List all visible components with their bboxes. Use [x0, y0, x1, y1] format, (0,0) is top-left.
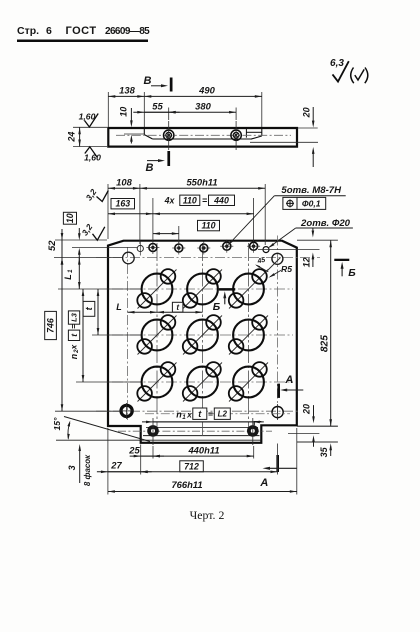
dimension 490	[144, 85, 261, 98]
svg-text:45: 45	[256, 257, 266, 266]
note 3 chamfers leader	[67, 444, 92, 486]
section mark B bottom	[146, 151, 171, 174]
dimension 25	[128, 444, 164, 457]
side view bolt 2	[231, 121, 241, 150]
svg-text:8 фасок: 8 фасок	[83, 454, 92, 486]
side view recess left step	[144, 128, 250, 139]
svg-text:440h11: 440h11	[187, 444, 219, 455]
note 2 holes Ф20 with leader	[268, 218, 353, 248]
page header text: Стр. 6 ГОСТ 26609-85	[17, 25, 150, 37]
svg-text:1,60: 1,60	[84, 153, 101, 163]
svg-text:n: n	[69, 354, 79, 359]
right extension lines	[288, 240, 338, 442]
dimension 35 right	[319, 443, 332, 457]
svg-text:35: 35	[319, 446, 329, 457]
svg-text:А: А	[284, 374, 293, 386]
side view recess right step	[246, 128, 261, 139]
svg-text:26609—85: 26609—85	[105, 26, 150, 37]
side view hidden slot line	[250, 141, 318, 143]
svg-text:=: =	[208, 409, 213, 419]
corner holes vertical centerline right	[276, 236, 278, 420]
hole cluster row3 col3	[229, 362, 268, 401]
dimension t vertical framed	[83, 289, 99, 335]
bottom chamfer line 15 deg edge	[56, 439, 261, 441]
radius R5 with leader	[268, 264, 292, 278]
dimension 380	[169, 100, 236, 113]
dimension 10 framed top-left	[63, 212, 80, 259]
dimension 550h11	[140, 177, 265, 190]
svg-text:t: t	[84, 306, 94, 310]
svg-text:t: t	[69, 333, 79, 337]
hole cluster row3 col2	[183, 362, 222, 401]
svg-text:12: 12	[301, 257, 311, 267]
svg-text:А: А	[259, 477, 268, 489]
svg-text:t: t	[176, 303, 179, 312]
svg-text:Ф0,1: Ф0,1	[302, 199, 321, 209]
bottom slot centerline	[118, 430, 272, 432]
dimension L1	[63, 258, 80, 289]
corner hole Ф20 bottom-right	[272, 404, 283, 420]
dimension 440h11	[153, 444, 254, 457]
svg-text:6: 6	[46, 25, 52, 37]
svg-text:3,2: 3,2	[80, 222, 95, 238]
hole cluster row3 col1	[137, 362, 176, 401]
M8 hole 2	[172, 242, 185, 255]
roughness 3,2 lower-left	[80, 222, 105, 240]
roughness 3,2 upper-left	[84, 187, 109, 203]
svg-text:20: 20	[301, 404, 311, 415]
svg-text:108: 108	[116, 177, 132, 188]
dimension 55	[133, 100, 179, 113]
svg-text:490: 490	[198, 85, 215, 96]
dimension 746 framed	[45, 258, 64, 412]
hole cluster row1 col2	[183, 269, 222, 308]
plan view plate outline	[108, 241, 297, 443]
angle dimension 15	[52, 417, 70, 440]
dimension 766h11	[108, 479, 297, 493]
svg-text:25: 25	[128, 444, 140, 455]
svg-text:Черт. 2: Черт. 2	[190, 508, 225, 522]
dimension 12	[301, 228, 314, 267]
position tolerance frame Ф0,1	[283, 197, 326, 209]
svg-text:766h11: 766h11	[171, 479, 202, 490]
cluster row centerlines	[112, 289, 293, 382]
svg-text:R5: R5	[281, 264, 292, 274]
side view bolt 1	[164, 121, 174, 150]
view arrow B right side	[334, 259, 356, 279]
extension lines above plan view	[108, 184, 265, 245]
left extension lines of side view	[73, 127, 107, 146]
slot bolt right	[247, 418, 259, 445]
bottom extension lines	[108, 428, 297, 495]
svg-text:440: 440	[213, 195, 229, 205]
dimension 20 right	[301, 404, 314, 447]
svg-text:746: 746	[46, 318, 56, 333]
svg-text:1: 1	[182, 414, 186, 421]
slot pitch label n1 x t = L2	[142, 408, 290, 423]
svg-text:55: 55	[152, 100, 163, 111]
svg-text:20: 20	[301, 107, 311, 118]
dimension 10 recess depth	[119, 107, 144, 144]
corner holes horizontal centerline top	[96, 257, 320, 259]
svg-text:1,60: 1,60	[79, 111, 96, 121]
svg-text:15°: 15°	[52, 417, 62, 431]
svg-text:10: 10	[119, 107, 129, 117]
dimension n2 x t = L3	[68, 289, 84, 382]
svg-text:L: L	[63, 274, 73, 280]
dimension 27	[97, 460, 152, 474]
svg-text:5отв. М8-7Н: 5отв. М8-7Н	[281, 185, 342, 196]
hole cluster row2 col1	[137, 315, 176, 354]
hole cluster row2 col3	[229, 315, 268, 354]
dimension 138	[108, 85, 144, 98]
svg-text:24: 24	[66, 132, 76, 143]
left extension lines	[54, 240, 141, 411]
section arrow A right side	[277, 374, 303, 398]
M8 hole 4	[220, 240, 233, 253]
svg-text:712: 712	[184, 461, 199, 471]
svg-text:х: х	[70, 344, 79, 350]
svg-text:L: L	[116, 302, 122, 312]
corner hole Ф20 top-right	[272, 253, 283, 264]
M8 hole 5	[247, 240, 260, 253]
roughness 1,60 lower	[84, 147, 101, 163]
chamfer 15 degree line	[64, 417, 150, 442]
svg-text:Б: Б	[348, 267, 356, 279]
hole cluster row1 col1	[137, 269, 176, 308]
hole plain top row	[137, 242, 143, 256]
dimension t horizontal framed	[157, 302, 203, 313]
svg-text:Б: Б	[213, 301, 221, 313]
caption Черт. 2	[190, 508, 225, 522]
svg-text:L2: L2	[218, 409, 228, 418]
side view plate outline	[108, 128, 297, 147]
small hole near right corner	[258, 247, 320, 253]
surface roughness note 6,3 with check marks	[330, 58, 368, 83]
view arrow B inside plan	[213, 288, 235, 313]
svg-text:L3: L3	[70, 312, 79, 322]
chamfer angle 45 label	[255, 257, 268, 272]
svg-text:х: х	[186, 409, 192, 419]
svg-text:3: 3	[67, 465, 77, 470]
svg-text:825: 825	[320, 335, 331, 352]
roughness 1,60 upper	[79, 111, 99, 127]
dimension 110 framed	[153, 220, 220, 235]
svg-text:110: 110	[183, 195, 197, 205]
M8 hole 1	[146, 241, 159, 254]
slot bolt left	[147, 418, 159, 445]
dimension 24 plate thickness	[66, 127, 81, 146]
svg-text:В: В	[146, 162, 154, 174]
section mark B top	[144, 75, 173, 92]
dimension 712 framed	[141, 461, 278, 473]
dimension 4x110=440 framed	[153, 195, 254, 215]
corner hole Ф20 bottom-left	[119, 403, 134, 419]
bottom slot inner lines	[143, 427, 260, 435]
svg-text:3,2: 3,2	[84, 187, 99, 203]
svg-text:=: =	[202, 196, 207, 206]
dimension 163 framed	[108, 199, 153, 216]
svg-text:27: 27	[110, 460, 122, 471]
section arrow A bottom	[259, 455, 296, 489]
dimension 108	[108, 177, 140, 190]
dimension L horizontal	[116, 302, 157, 314]
M8 hole 3	[197, 242, 210, 255]
corner hole Ф20 top-left	[123, 252, 135, 264]
svg-text:ГОСТ: ГОСТ	[66, 25, 97, 37]
svg-text:110: 110	[201, 221, 215, 231]
note 5 holes M8-7H with leader	[228, 185, 346, 246]
svg-text:380: 380	[195, 100, 211, 111]
bottom edge small notch tab	[254, 422, 261, 426]
svg-text:52: 52	[46, 240, 57, 251]
extension lines for top dims of side view	[108, 92, 261, 127]
side view centerline through bolts	[116, 134, 291, 136]
corner holes vertical centerline left	[127, 247, 129, 420]
svg-text:Стр.: Стр.	[17, 25, 39, 37]
page header underline	[17, 40, 148, 43]
extended diagonal from cluster r1c3 to corner hole	[268, 258, 281, 271]
svg-text:163: 163	[115, 199, 130, 209]
svg-text:2отв. Ф20: 2отв. Ф20	[300, 218, 351, 229]
svg-text:550h11: 550h11	[186, 177, 217, 188]
svg-text:138: 138	[119, 85, 135, 96]
dimension 825	[320, 240, 332, 426]
corner holes horizontal centerline bottom	[96, 410, 300, 412]
svg-text:6,3: 6,3	[330, 58, 344, 69]
svg-text:1: 1	[67, 269, 74, 273]
svg-text:10: 10	[65, 213, 75, 223]
cluster column centerlines	[157, 243, 249, 436]
svg-text:В: В	[144, 75, 152, 87]
hole cluster row1 col3	[229, 269, 268, 308]
dimension 52	[46, 229, 63, 269]
dimension 20 right of side view	[298, 107, 318, 167]
svg-text:4х: 4х	[164, 196, 176, 206]
hole cluster row2 col2	[183, 315, 222, 354]
